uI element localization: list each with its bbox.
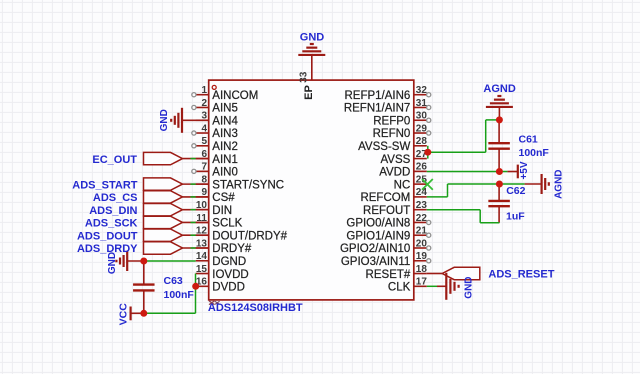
port ADS_DOUT (pin 12) — [77, 229, 209, 242]
pin 21 GPIO1/AIN9 — [346, 226, 430, 243]
port ADS_START (pin 8) — [72, 178, 208, 191]
junction DVDD/VCC — [192, 283, 199, 290]
value 1uF (C62) — [506, 210, 525, 222]
wire AVSS pin27-pin28 tie — [427, 146, 429, 159]
svg-text:26: 26 — [416, 162, 428, 173]
pin 4 AIN3 — [192, 123, 238, 140]
wire REFCOM pin24 horizontal — [427, 196, 448, 198]
pin 2 AIN5 — [192, 98, 238, 115]
pin 27 AVSS — [380, 149, 427, 166]
pin 29 REFN0 — [373, 123, 431, 140]
svg-text:AGND: AGND — [483, 83, 515, 95]
pin 11 SCLK — [196, 213, 243, 230]
pin 14 DGND — [196, 251, 246, 268]
svg-text:100nF: 100nF — [519, 147, 550, 159]
label C63 — [164, 275, 183, 287]
pin 26 AVDD — [379, 162, 427, 179]
svg-text:GND: GND — [300, 31, 325, 43]
pin 6 AIN1 — [196, 149, 238, 166]
svg-text:ADS_DIN: ADS_DIN — [89, 205, 137, 217]
port ADS_SCK (pin 11) — [85, 216, 209, 229]
svg-text:AVDD: AVDD — [379, 167, 410, 179]
pin 30 REFP0 — [373, 111, 431, 128]
value 100nF (C61) — [519, 147, 550, 159]
junction DGND/GND — [140, 258, 147, 265]
value 100nF (C63) — [164, 289, 195, 301]
svg-text:22: 22 — [416, 213, 428, 224]
svg-text:24: 24 — [416, 187, 428, 198]
svg-text:32: 32 — [416, 85, 428, 96]
power VCC — [118, 303, 144, 326]
svg-text:GND: GND — [159, 109, 170, 131]
svg-text:ADS_START: ADS_START — [72, 179, 137, 191]
svg-text:33: 33 — [299, 71, 310, 83]
junction AVSS — [424, 149, 431, 156]
svg-text:ADS124S08IRHBT: ADS124S08IRHBT — [208, 302, 303, 314]
svg-text:ADS_DRDY: ADS_DRDY — [77, 243, 138, 255]
svg-text:DGND: DGND — [212, 256, 246, 268]
power +5V — [507, 161, 529, 179]
wire REFOUT pin23 horizontal — [427, 209, 480, 211]
wire AVSS net to AGND/C61 junction — [486, 119, 500, 121]
ground AGND (right of C62) — [525, 169, 565, 198]
svg-text:ADS_RESET: ADS_RESET — [488, 269, 554, 281]
svg-text:15: 15 — [196, 264, 208, 275]
svg-text:30: 30 — [416, 111, 428, 122]
svg-text:REFP0: REFP0 — [373, 115, 410, 127]
svg-text:AGND: AGND — [553, 169, 564, 198]
pin 8 START/SYNC — [196, 174, 284, 191]
svg-text:21: 21 — [416, 226, 428, 237]
svg-text:DVDD: DVDD — [212, 282, 245, 294]
ground GND (pin 3 AIN4) — [159, 108, 209, 133]
svg-text:GPIO0/AIN8: GPIO0/AIN8 — [346, 218, 410, 230]
svg-text:14: 14 — [196, 251, 208, 262]
svg-text:2: 2 — [201, 98, 207, 109]
svg-text:AIN0: AIN0 — [212, 167, 238, 179]
junction VCC/C63 — [140, 310, 147, 317]
pin 23 REFOUT — [363, 200, 427, 217]
pin 17 CLK — [388, 277, 427, 294]
svg-text:CLK: CLK — [388, 282, 411, 294]
pin 32 REFP1/AIN6 — [344, 85, 430, 102]
svg-text:GPIO2/AIN10: GPIO2/AIN10 — [340, 243, 410, 255]
pin 1 marker dot — [212, 85, 216, 89]
pin 20 GPIO2/AIN10 — [340, 238, 431, 255]
label C61 — [519, 134, 538, 146]
wire REFOUT to C62 bottom — [480, 222, 499, 224]
svg-text:GPIO3/AIN11: GPIO3/AIN11 — [341, 256, 410, 268]
port ADS_DRDY (pin 13) — [77, 242, 209, 255]
svg-text:EC_OUT: EC_OUT — [92, 154, 137, 166]
svg-text:AINCOM: AINCOM — [212, 90, 258, 102]
svg-text:IOVDD: IOVDD — [212, 269, 248, 281]
svg-text:AVSS-SW: AVSS-SW — [358, 141, 410, 153]
ground AGND (top, above C61) — [483, 83, 515, 120]
svg-text:AVSS: AVSS — [380, 154, 410, 166]
svg-text:ADS_DOUT: ADS_DOUT — [77, 230, 138, 242]
wire REFOUT vertical jog — [479, 210, 481, 223]
wire VCC riser to IOVDD/DVDD — [195, 274, 197, 314]
svg-text:DIN: DIN — [212, 205, 232, 217]
svg-text:REFOUT: REFOUT — [363, 205, 410, 217]
ground GND (top, EP net) — [298, 31, 325, 55]
designator marker cross — [209, 301, 220, 305]
svg-text:5: 5 — [201, 136, 207, 147]
svg-text:SCLK: SCLK — [212, 218, 242, 230]
svg-text:START/SYNC: START/SYNC — [212, 179, 284, 191]
svg-text:+5V: +5V — [519, 161, 530, 179]
svg-text:GND: GND — [463, 276, 474, 298]
pin 18 RESET# — [366, 264, 428, 281]
capacitor C61 — [488, 120, 510, 172]
pin 24 REFCOM — [360, 187, 427, 204]
svg-text:C62: C62 — [506, 185, 525, 197]
pin 15 IOVDD — [196, 264, 249, 281]
pin 25 NC — [394, 174, 428, 191]
pin 1 AINCOM — [192, 85, 259, 102]
svg-text:29: 29 — [416, 123, 428, 134]
svg-text:AIN5: AIN5 — [212, 103, 238, 115]
pin 22 GPIO0/AIN8 — [346, 213, 430, 230]
svg-text:ADS_SCK: ADS_SCK — [85, 218, 138, 230]
wire REFCOM vertical jog — [447, 184, 449, 197]
no-connect X pin 25 NC — [422, 179, 433, 190]
wire DGND pin14 to GND junction — [144, 260, 196, 262]
svg-text:19: 19 — [416, 251, 428, 262]
svg-text:REFN1/AIN7: REFN1/AIN7 — [344, 103, 410, 115]
ground GND (pin 17 CLK net) — [437, 273, 474, 300]
ground GND (pin 14 DGND net) — [107, 251, 144, 274]
pin 19 GPIO3/AIN11 — [341, 251, 431, 268]
IC U1 ADS124S08IRHBT body — [209, 80, 414, 300]
svg-text:AIN2: AIN2 — [212, 141, 238, 153]
pin 10 DIN — [196, 200, 232, 217]
pin 12 DOUT/DRDY# — [196, 226, 288, 243]
svg-text:1uF: 1uF — [506, 210, 525, 222]
designator ADS124S08IRHBT — [208, 302, 303, 314]
svg-text:AIN3: AIN3 — [212, 128, 238, 140]
svg-text:REFN0: REFN0 — [373, 128, 411, 140]
svg-text:VCC: VCC — [118, 303, 130, 326]
port EC_OUT (pin 6 AIN1) — [92, 152, 208, 165]
port ADS_CS (pin 9) — [93, 191, 209, 204]
wire AVDD pin26 to +5V junction — [427, 171, 508, 173]
wire CLK pin17 to GND — [427, 285, 438, 287]
svg-text:RESET#: RESET# — [366, 269, 411, 281]
svg-text:7: 7 — [201, 162, 207, 173]
svg-text:20: 20 — [416, 238, 428, 249]
svg-text:100nF: 100nF — [164, 289, 195, 301]
svg-text:AIN1: AIN1 — [212, 154, 238, 166]
svg-text:DOUT/DRDY#: DOUT/DRDY# — [212, 230, 287, 242]
svg-text:REFCOM: REFCOM — [360, 192, 410, 204]
pin 28 AVSS-SW — [358, 136, 427, 153]
svg-text:AIN4: AIN4 — [212, 115, 238, 127]
pin 31 REFN1/AIN7 — [344, 98, 431, 115]
pin 3 AIN4 — [196, 111, 239, 128]
svg-text:23: 23 — [416, 200, 428, 211]
junction AGND/C61 — [496, 116, 503, 123]
svg-text:31: 31 — [416, 98, 428, 109]
svg-text:C61: C61 — [519, 134, 538, 146]
junction +5V/AVDD — [496, 168, 503, 175]
wire AVSS net horizontal to C61 — [428, 151, 486, 153]
label C62 — [506, 185, 525, 197]
svg-text:18: 18 — [416, 264, 428, 275]
svg-text:GPIO1/AIN9: GPIO1/AIN9 — [346, 230, 410, 242]
svg-text:DRDY#: DRDY# — [212, 243, 252, 255]
svg-text:28: 28 — [416, 136, 428, 147]
pin 9 CS# — [196, 187, 236, 204]
pin 7 AIN0 — [192, 162, 238, 179]
capacitor C63 — [133, 261, 155, 313]
pin 33 EP (exposed pad) — [299, 55, 315, 100]
pin 16 DVDD — [196, 277, 245, 294]
svg-text:NC: NC — [394, 179, 411, 191]
svg-text:GND: GND — [107, 252, 118, 274]
svg-text:4: 4 — [201, 123, 207, 134]
svg-text:1: 1 — [201, 85, 207, 96]
svg-text:C63: C63 — [164, 275, 183, 287]
wire REFCOM to C62/AGND junction — [448, 183, 525, 185]
svg-text:17: 17 — [416, 277, 428, 288]
junction REFCOM/C62 — [496, 181, 503, 188]
pin 5 AIN2 — [192, 136, 238, 153]
port ADS_RESET (pin 18 RESET#) — [427, 267, 555, 280]
svg-text:EP: EP — [303, 85, 315, 100]
svg-text:REFP1/AIN6: REFP1/AIN6 — [344, 90, 410, 102]
svg-text:CS#: CS# — [212, 192, 235, 204]
capacitor C62 — [488, 184, 510, 223]
port ADS_DIN (pin 10) — [89, 204, 208, 217]
wire AVSS net vertical riser — [485, 120, 487, 152]
pin 13 DRDY# — [196, 238, 252, 255]
wire VCC rail horizontal — [144, 312, 196, 314]
svg-text:ADS_CS: ADS_CS — [93, 192, 138, 204]
